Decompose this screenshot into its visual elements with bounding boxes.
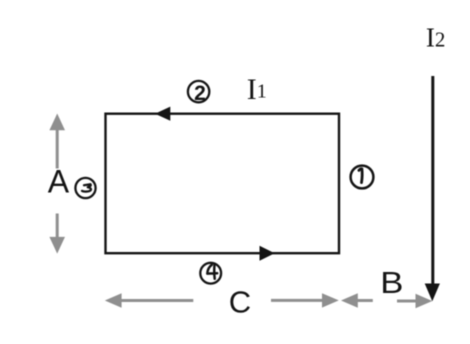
svg-text:I1: I1 [247,73,267,106]
svg-text:B: B [380,265,403,300]
dimension A arrow down [56,214,59,239]
straight wire I2 with downward current arrow [431,76,434,285]
dimension A arrow up [56,129,59,169]
svg-text:A: A [48,163,70,199]
side label circled 3 (left side) [75,178,95,198]
dimension C arrow right [271,299,323,302]
side label circled 2 (top side) [188,81,209,102]
dimension B arrow left [357,299,373,302]
dimension C arrow left [121,299,193,302]
dimension B arrow right [397,300,416,303]
svg-text:2: 2 [194,82,206,105]
side label circled 1 (right side) [351,166,374,189]
svg-text:I2: I2 [426,22,446,52]
current arrow on top side (leftward) [155,107,170,121]
side label circled 4 (bottom side) [200,263,221,284]
current arrow on bottom side (rightward) [260,246,275,261]
svg-text:C: C [229,284,251,319]
rectangular current loop I1 [106,114,340,254]
